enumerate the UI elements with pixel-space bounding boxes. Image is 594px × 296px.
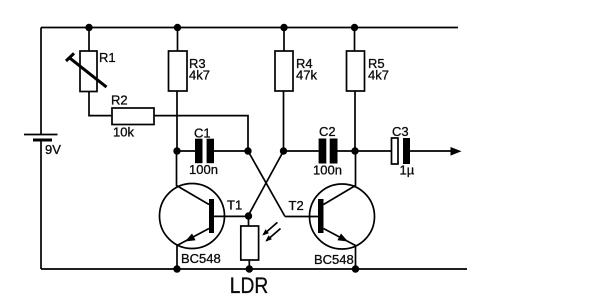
- resistor R2: [112, 108, 154, 125]
- wire R4 bottom to C2 left node: [283, 91, 285, 151]
- wire C1 left node to C1 plate: [177, 150, 195, 152]
- wire left rail upper (battery + to top rail): [40, 28, 42, 135]
- node C1 left junction: [173, 147, 180, 154]
- svg-text:BC548: BC548: [181, 251, 221, 266]
- wire top rail to R3: [177, 28, 179, 52]
- resistor R4: [275, 51, 293, 91]
- wire C1 plate to C1 right node: [214, 150, 248, 152]
- capacitor C2: [319, 139, 338, 164]
- wire top rail to R1: [88, 28, 90, 52]
- transistor T1 collector diagonal: [177, 186, 210, 205]
- svg-text:100n: 100n: [189, 162, 218, 177]
- wire LDR to ground rail: [248, 260, 250, 269]
- transistor T1 emitter diagonal: [177, 229, 209, 246]
- light arrow 2: [265, 229, 280, 242]
- battery 9V: [24, 135, 58, 141]
- transistor T2 circle: [310, 184, 375, 249]
- wire R2 right to C1 right node: [154, 116, 248, 151]
- wire top supply rail: [41, 27, 458, 29]
- node junction top rail / R1: [85, 24, 92, 31]
- svg-text:4k7: 4k7: [189, 67, 210, 82]
- node C1 right junction: [244, 147, 251, 154]
- svg-text:C2: C2: [319, 124, 336, 139]
- svg-text:T1: T1: [227, 198, 242, 213]
- wire T1 collector (from C1 left node): [176, 151, 178, 186]
- svg-text:C3: C3: [392, 124, 409, 139]
- transistor T2 base bar: [318, 199, 324, 233]
- svg-text:R2: R2: [111, 93, 128, 108]
- output arrow: [451, 147, 462, 156]
- wire T1 base node to LDR: [248, 216, 250, 226]
- wire T2 emitter to ground rail: [355, 246, 357, 270]
- wire R5 bottom to C2 right node: [354, 91, 356, 151]
- transistor T2 collector diagonal: [324, 186, 356, 205]
- svg-text:C1: C1: [194, 126, 211, 141]
- diagonal wire C2 left node to T1 base node: [248, 151, 284, 216]
- light arrow 1: [262, 222, 277, 235]
- node junction top rail / R3: [174, 24, 181, 31]
- wire C2 plate to C2 right node: [338, 150, 356, 152]
- node junction top rail / R4: [280, 24, 287, 31]
- resistor R5: [347, 51, 365, 91]
- wire left rail lower (battery - to bottom rail): [40, 140, 42, 269]
- svg-text:10k: 10k: [113, 125, 134, 140]
- transistor T1 base line: [214, 215, 248, 217]
- wire top rail to R4: [283, 28, 285, 52]
- wire T1 emitter to ground rail: [176, 246, 178, 270]
- node C2 left junction: [280, 147, 287, 154]
- node LDR / ground rail junction: [246, 265, 253, 272]
- diagonal wire C1 right node to T2 base: [248, 151, 285, 217]
- svg-text:4k7: 4k7: [368, 67, 389, 82]
- node T1 base / LDR junction: [245, 212, 252, 219]
- wire C2 right node to C3: [355, 150, 392, 152]
- wire bottom ground rail: [41, 268, 467, 270]
- resistor R1 (preset, variable): [66, 51, 107, 92]
- wire top rail to R5: [354, 28, 356, 52]
- svg-text:LDR: LDR: [230, 273, 268, 296]
- svg-text:100n: 100n: [313, 163, 342, 178]
- wire T2 collector (from C2 right node): [355, 151, 357, 186]
- wire C2 left node to C2 plate: [284, 150, 319, 152]
- svg-text:BC548: BC548: [314, 252, 354, 267]
- transistor T1 circle: [160, 184, 225, 249]
- capacitor C3 (polarized): [392, 138, 411, 164]
- svg-text:47k: 47k: [296, 67, 317, 82]
- photoresistor LDR: [241, 226, 259, 260]
- wire R1 bottom to R2 left: [89, 92, 112, 116]
- node C2 right junction: [351, 147, 358, 154]
- wire C3 to output arrow: [410, 150, 451, 152]
- transistor T2 emitter diagonal: [324, 229, 356, 246]
- wire R3 bottom to C1 left node: [176, 91, 178, 151]
- node T2 emitter / ground rail junction: [352, 265, 359, 272]
- resistor R3: [169, 51, 188, 91]
- svg-text:1µ: 1µ: [400, 163, 415, 178]
- svg-text:9V: 9V: [45, 142, 61, 157]
- node T1 emitter / ground rail junction: [173, 265, 180, 272]
- transistor T2 emitter arrow: [337, 234, 348, 242]
- transistor T1 base bar: [209, 199, 214, 233]
- transistor T1 emitter arrow: [185, 234, 196, 242]
- capacitor C1: [195, 139, 214, 164]
- transistor T2 base line: [285, 216, 318, 218]
- svg-text:T2: T2: [289, 198, 304, 213]
- svg-text:R1: R1: [99, 50, 116, 65]
- node junction top rail / R5: [351, 24, 358, 31]
